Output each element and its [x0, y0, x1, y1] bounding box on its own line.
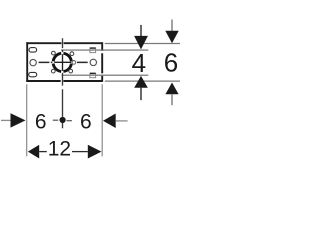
- dimension 6 arrow bottom: [165, 83, 178, 95]
- bolt circle hole lower-right: [69, 69, 73, 73]
- inner reference line lower: [62, 74, 149, 76]
- slot hole bottom-left (stadium): [29, 72, 37, 76]
- dimension 12 line left: [39, 151, 47, 153]
- extension line bottom left: [26, 84, 28, 156]
- window cutout top: [90, 48, 96, 53]
- bottom dim stub left: [53, 119, 58, 121]
- extension line bottom right (6 dim): [105, 80, 180, 82]
- dimension 6 tail top: [171, 20, 173, 32]
- svg-text:4: 4: [132, 48, 146, 78]
- dimension 4 arrow bottom: [134, 76, 148, 88]
- horizontal centerline dashes: [39, 61, 88, 63]
- vertical centerline dashes: [62, 38, 64, 128]
- dimension 4 tail bottom: [140, 88, 142, 100]
- bottom 6 left arrow: [11, 113, 26, 127]
- plate outline bottom edge: [26, 80, 102, 82]
- dimension 12 left arrow: [28, 145, 39, 159]
- dimension 12 right arrow: [88, 145, 102, 159]
- extension line top right (6 dim): [105, 43, 180, 45]
- bottom dim stub right: [67, 120, 72, 122]
- dimension 12 line right: [72, 151, 88, 153]
- hole right circle: [90, 59, 96, 65]
- bolt circle hole lower-left: [51, 69, 55, 73]
- small hole east: [72, 61, 76, 65]
- bottom 6 right arrow: [103, 114, 116, 129]
- big hole ring (4 arcs with cardinal gaps): [53, 53, 71, 71]
- hole left circle: [30, 59, 36, 65]
- bottom 6 left tail: [1, 119, 11, 121]
- dimension 4 arrow top: [134, 36, 148, 50]
- window cutout bottom: [90, 73, 96, 78]
- inner reference line upper: [61, 49, 148, 51]
- dimension 4 tail top: [140, 25, 142, 36]
- svg-text:6: 6: [80, 110, 92, 133]
- plate outline left edge: [26, 42, 28, 82]
- plate outline right edge: [101, 42, 103, 82]
- svg-text:6: 6: [164, 47, 178, 77]
- bottom 6 right tail: [116, 120, 128, 122]
- bolt circle hole upper-right: [70, 52, 74, 56]
- crosshair horizontal: [54, 61, 71, 63]
- svg-text:6: 6: [35, 110, 47, 133]
- dimension 6 tail bottom: [171, 94, 173, 105]
- svg-text:12: 12: [48, 138, 71, 161]
- dimension 6 arrow top: [165, 31, 178, 43]
- plate outline top edge: [26, 42, 102, 44]
- crosshair vertical: [62, 54, 64, 71]
- slot hole top-left (stadium): [29, 48, 37, 53]
- extension line bottom right: [101, 84, 103, 156]
- center reference dot: [60, 117, 66, 123]
- bolt circle hole upper-left: [52, 51, 56, 55]
